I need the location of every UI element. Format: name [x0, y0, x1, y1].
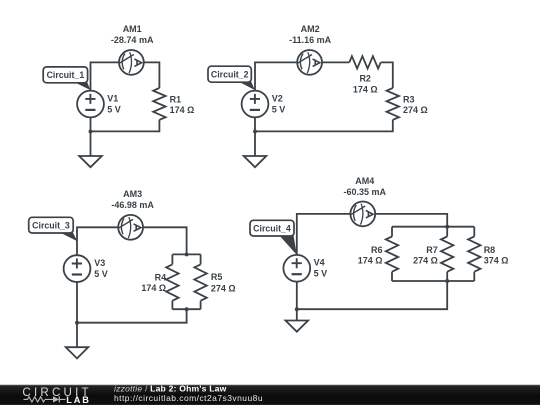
svg-text:5 V: 5 V — [107, 104, 121, 114]
svg-text:R4: R4 — [155, 272, 167, 282]
svg-text:R1: R1 — [170, 94, 182, 104]
svg-text:AM1: AM1 — [123, 24, 142, 34]
svg-text:V1: V1 — [107, 93, 118, 103]
svg-text:-28.74 mA: -28.74 mA — [111, 35, 154, 45]
svg-text:Circuit_1: Circuit_1 — [47, 70, 85, 80]
svg-text:274 Ω: 274 Ω — [211, 284, 236, 294]
svg-text:http://circuitlab.com/ct2a7s3v: http://circuitlab.com/ct2a7s3vnuu8u — [114, 393, 263, 403]
svg-text:R7: R7 — [426, 245, 438, 255]
svg-text:174 Ω: 174 Ω — [358, 256, 383, 266]
svg-text:174 Ω: 174 Ω — [353, 84, 378, 94]
svg-text:5 V: 5 V — [272, 104, 286, 114]
svg-text:izzottie / Lab 2: Ohm's Law: izzottie / Lab 2: Ohm's Law — [114, 383, 227, 393]
svg-text:274 Ω: 274 Ω — [413, 256, 438, 266]
svg-text:R5: R5 — [211, 272, 223, 282]
svg-text:Circuit_3: Circuit_3 — [32, 220, 70, 230]
svg-text:R6: R6 — [371, 245, 383, 255]
svg-text:-46.98 mA: -46.98 mA — [111, 200, 154, 210]
svg-text:AM3: AM3 — [123, 189, 142, 199]
svg-text:174 Ω: 174 Ω — [170, 105, 195, 115]
svg-text:V2: V2 — [272, 93, 283, 103]
svg-text:Circuit_4: Circuit_4 — [253, 223, 291, 233]
svg-text:R8: R8 — [484, 245, 496, 255]
svg-text:AM4: AM4 — [355, 176, 374, 186]
svg-text:374 Ω: 374 Ω — [484, 256, 509, 266]
svg-text:-11.16 mA: -11.16 mA — [289, 35, 332, 45]
svg-text:Circuit_2: Circuit_2 — [211, 69, 249, 79]
svg-text:V3: V3 — [94, 258, 105, 268]
svg-text:174 Ω: 174 Ω — [141, 283, 166, 293]
svg-text:LAB: LAB — [66, 395, 91, 405]
svg-text:5 V: 5 V — [314, 269, 328, 279]
svg-text:5 V: 5 V — [94, 269, 108, 279]
svg-text:V4: V4 — [314, 258, 325, 268]
svg-text:-60.35 mA: -60.35 mA — [344, 187, 387, 197]
svg-text:R2: R2 — [359, 74, 371, 84]
svg-text:AM2: AM2 — [301, 24, 320, 34]
svg-text:R3: R3 — [403, 94, 415, 104]
svg-text:274 Ω: 274 Ω — [403, 105, 428, 115]
